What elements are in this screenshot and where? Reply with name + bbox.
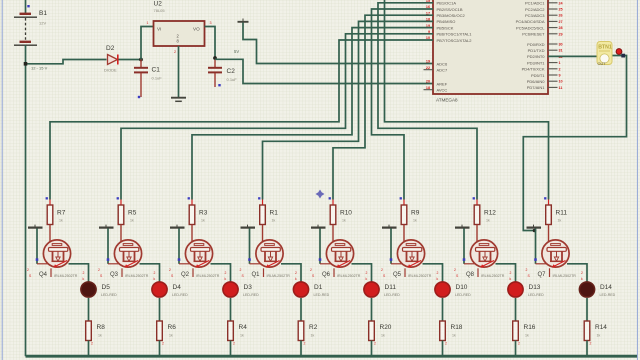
wire D3 to R4	[230, 298, 232, 321]
svg-text:PD5/T1: PD5/T1	[531, 73, 545, 78]
LED D1	[293, 282, 308, 297]
wire D10 to R18	[442, 298, 444, 321]
svg-text:PC2/ADC2: PC2/ADC2	[525, 7, 545, 12]
wire power to Q5 gate	[390, 228, 392, 263]
C2 pin end marker	[218, 84, 220, 86]
svg-text:D4: D4	[173, 284, 182, 291]
junction Q6 gate	[319, 258, 322, 261]
svg-text:IRLML2502TR: IRLML2502TR	[267, 274, 291, 278]
svg-text:PC1/ADC1: PC1/ADC1	[525, 1, 545, 6]
gate stub Q3	[108, 263, 120, 265]
junction BTN1 net at Q7 gate	[533, 229, 537, 233]
battery B1	[14, 0, 37, 45]
wire power to Q3 gate	[107, 228, 109, 263]
resistor R12	[474, 200, 480, 225]
wire PB7 to R7	[50, 40, 433, 200]
Q6 source stub	[333, 268, 335, 277]
svg-text:PD4/T0/XCK: PD4/T0/XCK	[522, 67, 545, 72]
svg-text:0.1uF: 0.1uF	[152, 76, 163, 81]
Q5 source stub	[404, 268, 406, 277]
wire PB2 to R9	[372, 9, 434, 200]
wire power to Q4 gate	[36, 228, 38, 263]
svg-text:2: 2	[510, 271, 512, 275]
transistor Q1 IRLML2502	[256, 240, 283, 268]
svg-text:1k: 1k	[201, 219, 205, 223]
wire R16 to ground bus	[515, 341, 517, 357]
svg-text:PB3/MOSI/OC2: PB3/MOSI/OC2	[437, 13, 466, 18]
wire PB5 to R3	[192, 28, 433, 200]
wire R4 to ground bus	[230, 341, 232, 357]
power symbol at Q8 gate	[455, 225, 470, 228]
capacitor C2	[208, 60, 222, 88]
svg-text:78L05: 78L05	[154, 8, 166, 13]
svg-text:OUT: OUT	[598, 62, 607, 66]
resistor R9	[401, 200, 407, 225]
svg-text:2: 2	[381, 268, 383, 272]
pin stub PD5/T1	[548, 74, 558, 76]
svg-text:PD6/AIN0: PD6/AIN0	[527, 79, 546, 84]
svg-text:2: 2	[310, 268, 312, 272]
R7 origin marker	[46, 197, 48, 199]
resistor R18	[440, 321, 446, 341]
wire power to Q6 gate	[319, 228, 321, 263]
svg-text:1k: 1k	[597, 334, 601, 338]
resistor R2	[298, 321, 304, 341]
svg-text:Q7: Q7	[538, 272, 547, 278]
Q8 source stub	[477, 268, 479, 277]
gate stub Q8	[464, 263, 476, 265]
R12 origin marker	[473, 197, 475, 199]
resistor R6	[157, 321, 163, 341]
wire D11 to R20	[371, 298, 373, 321]
wire R3 to Q2 drain	[191, 225, 193, 245]
svg-text:Q8: Q8	[466, 272, 475, 278]
svg-text:27: 27	[559, 20, 563, 24]
gate stub Q2	[179, 263, 191, 265]
svg-text:2: 2	[27, 268, 29, 272]
svg-text:D10: D10	[456, 284, 468, 291]
svg-text:k: k	[154, 277, 156, 281]
svg-text:R8: R8	[97, 324, 106, 331]
wire Q2 source to D3	[211, 264, 231, 283]
svg-text:2: 2	[162, 342, 164, 346]
LED D14	[579, 282, 594, 297]
transistor Q4 IRLML2502	[43, 240, 70, 268]
R9 origin marker	[400, 197, 402, 199]
svg-text:1k: 1k	[381, 334, 385, 338]
svg-text:Q5: Q5	[393, 272, 402, 278]
junction Q4 gate	[36, 258, 39, 261]
power symbol at Q6 gate	[311, 225, 326, 228]
wire D4 to R6	[159, 298, 161, 321]
wire diode to node C1	[119, 59, 142, 61]
wire R6 to ground bus	[159, 341, 161, 357]
svg-text:2: 2	[304, 342, 306, 346]
wire R10 to Q6 drain	[332, 225, 334, 245]
svg-text:PC6/RESET: PC6/RESET	[522, 32, 545, 37]
svg-text:AVCC: AVCC	[437, 88, 448, 93]
svg-text:2: 2	[526, 268, 528, 272]
svg-text:U2: U2	[154, 1, 163, 8]
svg-text:30: 30	[559, 43, 563, 47]
BTN1 red indicator	[616, 49, 622, 55]
wire power to Q7 gate	[535, 228, 537, 263]
svg-text:2: 2	[590, 342, 592, 346]
svg-text:11: 11	[559, 86, 563, 90]
pin stub PD6/AIN0	[548, 80, 558, 82]
svg-text:PC4/ADC4/SDA: PC4/ADC4/SDA	[516, 19, 545, 24]
svg-text:1k: 1k	[98, 334, 102, 338]
svg-text:31: 31	[559, 49, 563, 53]
svg-text:k: k	[437, 277, 439, 281]
wire Q1 source to D1	[281, 264, 301, 283]
svg-text:R1: R1	[270, 210, 279, 217]
svg-text:IRLML2502TR: IRLML2502TR	[481, 274, 505, 278]
svg-text:PB7/TOSC2/XTAL2: PB7/TOSC2/XTAL2	[437, 38, 473, 43]
Q4 source stub	[50, 268, 52, 277]
svg-text:2: 2	[559, 67, 561, 71]
pin stub PD7/AIN1	[548, 86, 558, 88]
svg-text:D14: D14	[600, 284, 612, 291]
pin stub PC1/ADC1	[548, 2, 558, 4]
svg-text:LED-RED: LED-RED	[101, 293, 117, 297]
Q1 source stub	[263, 268, 265, 277]
transistor Q3 IRLML2502	[114, 240, 141, 268]
C1 pin end marker	[138, 96, 140, 98]
junction node 5V	[213, 56, 217, 60]
resistor R8	[86, 321, 92, 341]
svg-text:10: 10	[559, 80, 563, 84]
pin stub PD2/INT0	[548, 55, 558, 57]
svg-text:BTN1: BTN1	[598, 45, 612, 51]
svg-text:IRLML2502TR: IRLML2502TR	[408, 274, 432, 278]
resistor R16	[513, 321, 519, 341]
svg-text:LED-RED: LED-RED	[528, 293, 544, 297]
wire R8 to ground bus	[88, 341, 90, 357]
svg-text:k: k	[366, 277, 368, 281]
LED D3	[223, 282, 238, 297]
wire Q6 source to D11	[352, 264, 372, 283]
svg-text:R11: R11	[556, 210, 568, 217]
svg-text:IRLML2502TR: IRLML2502TR	[196, 274, 220, 278]
svg-text:VO: VO	[193, 27, 200, 32]
wire R14 to ground bus	[586, 341, 588, 357]
wire PB1 to R12	[378, 3, 477, 200]
svg-text:R2: R2	[309, 324, 318, 331]
svg-text:PC5/ADC5/SCL: PC5/ADC5/SCL	[516, 25, 545, 30]
power symbol at Q5 gate	[382, 225, 397, 228]
sheet border right	[636, 0, 638, 360]
svg-text:D1: D1	[314, 284, 323, 291]
svg-text:20: 20	[426, 80, 430, 84]
svg-text:PB6/TOSC1/XTAL1: PB6/TOSC1/XTAL1	[437, 32, 473, 37]
pin stub PC3/ADC3	[548, 14, 558, 16]
svg-text:R5: R5	[128, 210, 137, 217]
svg-text:PB4/MISO: PB4/MISO	[437, 19, 456, 24]
svg-text:R7: R7	[57, 210, 66, 217]
R3 origin marker	[188, 197, 190, 199]
wire R20 to ground bus	[371, 341, 373, 357]
wire D13 to R16	[515, 298, 517, 321]
svg-text:Q3: Q3	[110, 272, 119, 278]
resistor R14	[584, 321, 590, 341]
svg-text:R18: R18	[451, 324, 463, 331]
svg-text:2: 2	[295, 271, 297, 275]
R5 origin marker	[117, 197, 119, 199]
svg-text:IRLML2502TR: IRLML2502TR	[553, 274, 577, 278]
svg-text:LED-RED: LED-RED	[172, 293, 188, 297]
svg-text:2: 2	[91, 342, 93, 346]
power symbol at Q3 gate	[99, 225, 114, 228]
power symbol at Q1 gate	[241, 225, 256, 228]
svg-text:2: 2	[169, 268, 171, 272]
LED D4	[152, 282, 167, 297]
svg-text:2: 2	[454, 268, 456, 272]
wire 5V node to AREF pin	[215, 59, 433, 83]
transistor Q7 IRLML2502	[542, 240, 569, 268]
wire regulator gnd	[178, 46, 180, 97]
resistor R20	[369, 321, 375, 341]
MCU U1 ATMEGA8 body	[433, 0, 548, 94]
svg-text:1k: 1k	[59, 219, 63, 223]
resistor R1	[260, 200, 266, 225]
Q2 source stub	[192, 268, 194, 277]
svg-text:1k: 1k	[413, 219, 417, 223]
svg-text:5V: 5V	[234, 49, 239, 54]
gate stub Q6	[320, 263, 332, 265]
button BTN1 body	[597, 42, 612, 65]
svg-text:9: 9	[559, 74, 561, 78]
svg-text:k: k	[83, 277, 85, 281]
svg-text:PB1/OC1A: PB1/OC1A	[437, 1, 457, 6]
capacitor C1	[134, 60, 148, 98]
wire R1 to Q1 drain	[262, 225, 264, 245]
wire PB0 to R11	[385, 0, 549, 200]
gate stub Q4	[37, 263, 49, 265]
junction node VIN	[139, 58, 143, 62]
svg-text:R9: R9	[411, 210, 420, 217]
svg-text:LED-RED: LED-RED	[243, 293, 259, 297]
Q7 source stub	[549, 268, 551, 277]
wire R2 to ground bus	[300, 341, 302, 357]
Q3 source stub	[121, 268, 123, 277]
wire R12 to Q8 drain	[476, 225, 478, 245]
LED D13	[508, 282, 523, 297]
svg-text:IRLML2502TR: IRLML2502TR	[337, 274, 361, 278]
svg-text:2: 2	[518, 342, 520, 346]
svg-text:1k: 1k	[311, 334, 315, 338]
svg-text:R3: R3	[199, 210, 208, 217]
wire D1 to R2	[300, 298, 302, 321]
junction battery node	[24, 62, 28, 66]
svg-text:2: 2	[98, 268, 100, 272]
svg-text:29: 29	[559, 32, 563, 36]
sheet border left	[1, 0, 3, 360]
svg-text:LED-RED: LED-RED	[384, 293, 400, 297]
svg-text:25: 25	[559, 8, 563, 12]
svg-text:LED-RED: LED-RED	[600, 293, 616, 297]
svg-text:R16: R16	[524, 324, 536, 331]
svg-text:1k: 1k	[272, 219, 276, 223]
svg-text:IRLML2502TR: IRLML2502TR	[54, 274, 78, 278]
wire PB6 to R5	[121, 34, 433, 200]
svg-text:R6: R6	[168, 324, 177, 331]
svg-text:2: 2	[154, 271, 156, 275]
svg-text:12 - 15 V: 12 - 15 V	[31, 66, 48, 71]
resistor R7	[47, 200, 53, 225]
R1 origin marker	[258, 197, 260, 199]
wire Q5 source to D10	[423, 264, 443, 283]
svg-text:Q6: Q6	[322, 272, 331, 278]
origin marker near R10	[316, 190, 325, 199]
svg-text:2: 2	[233, 342, 235, 346]
regulator U2 body	[154, 21, 205, 46]
svg-text:R20: R20	[380, 324, 392, 331]
ground bus	[26, 355, 638, 358]
power symbol at Q7 gate	[527, 225, 542, 228]
svg-text:2: 2	[174, 50, 176, 54]
pin stub AVCC	[424, 89, 434, 91]
wire PB4 to R1	[263, 21, 434, 199]
svg-text:26: 26	[559, 14, 563, 18]
svg-text:VI: VI	[157, 27, 161, 32]
pin stub PD3/INT1	[548, 62, 558, 64]
ground symbol	[171, 98, 186, 102]
svg-text:2: 2	[374, 342, 376, 346]
R10 origin marker	[329, 197, 331, 199]
svg-text:1k: 1k	[240, 334, 244, 338]
wire R18 to ground bus	[442, 341, 444, 357]
wire Q3 source to D4	[140, 264, 160, 283]
gate stub Q1	[250, 263, 262, 265]
junction Q5 gate	[390, 258, 393, 261]
junction Q7 gate	[534, 258, 537, 261]
svg-text:1k: 1k	[169, 334, 173, 338]
wire Q7 source to D14	[567, 264, 587, 283]
svg-text:3: 3	[210, 21, 212, 25]
resistor R4	[228, 321, 234, 341]
svg-text:R12: R12	[484, 210, 496, 217]
battery origin marker	[27, 5, 29, 7]
wire battery to diode	[26, 60, 107, 64]
svg-text:IRLML2502TR: IRLML2502TR	[125, 274, 149, 278]
wire R9 to Q5 drain	[403, 225, 405, 245]
wire R11 to Q7 drain	[548, 225, 550, 245]
diode D2	[108, 55, 118, 65]
power symbol at Q2 gate	[170, 225, 185, 228]
svg-text:Q1: Q1	[252, 272, 261, 278]
svg-text:2: 2	[83, 271, 85, 275]
svg-text:D5: D5	[102, 284, 111, 291]
svg-text:2: 2	[445, 342, 447, 346]
wire Q8 source to D13	[496, 264, 516, 283]
power symbol 5V rail	[238, 19, 249, 22]
transistor Q8 IRLML2502	[470, 240, 497, 268]
svg-text:DIODE: DIODE	[104, 68, 117, 73]
wire power to Q8 gate	[463, 228, 465, 263]
wire BTN1 out to Q7 gate	[523, 56, 626, 231]
svg-text:1k: 1k	[342, 219, 346, 223]
svg-text:R4: R4	[239, 324, 248, 331]
junction Q2 gate	[178, 258, 181, 261]
svg-text:PB2/SS/OC1B: PB2/SS/OC1B	[437, 7, 463, 12]
resistor R11	[546, 200, 552, 225]
wire power to Q1 gate	[249, 228, 251, 263]
svg-text:PC3/ADC3: PC3/ADC3	[525, 13, 545, 18]
svg-text:2: 2	[225, 271, 227, 275]
svg-text:B1: B1	[39, 10, 47, 17]
svg-text:28: 28	[559, 26, 563, 30]
wire 5V power to ADC7 pin	[243, 23, 433, 64]
wire PB3 to R10	[333, 15, 433, 199]
svg-text:LED-RED: LED-RED	[314, 293, 330, 297]
wire Q4 source to D5	[69, 264, 89, 283]
svg-text:Q2: Q2	[181, 272, 190, 278]
wire R7 to Q4 drain	[49, 225, 51, 245]
svg-text:k: k	[295, 277, 297, 281]
svg-text:C1: C1	[152, 67, 161, 74]
transistor Q6 IRLML2502	[326, 240, 353, 268]
svg-text:0.1uF: 0.1uF	[227, 77, 238, 82]
svg-text:12V: 12V	[39, 21, 46, 26]
pin stub PC2/ADC2	[548, 8, 558, 10]
pin stub PC6/RESET	[548, 33, 558, 35]
svg-text:D3: D3	[244, 284, 253, 291]
svg-text:AREF: AREF	[437, 81, 448, 86]
pin stub PC4/ADC4/SDA	[548, 20, 558, 22]
LED D10	[435, 282, 450, 297]
wire power to Q2 gate	[178, 228, 180, 263]
pin stub PD4/T0/XCK	[548, 68, 558, 70]
svg-text:Q4: Q4	[39, 272, 48, 278]
pin stub PD0/RXD	[548, 43, 558, 45]
svg-text:ATMEGA8: ATMEGA8	[436, 98, 458, 103]
svg-text:PD1/TXD: PD1/TXD	[528, 48, 545, 53]
svg-text:PB5/SCK: PB5/SCK	[437, 25, 454, 30]
svg-text:k: k	[581, 277, 583, 281]
svg-text:1: 1	[559, 61, 561, 65]
gate stub Q5	[391, 263, 403, 265]
svg-text:R14: R14	[595, 324, 607, 331]
svg-text:2: 2	[240, 268, 242, 272]
svg-text:1k: 1k	[525, 334, 529, 338]
svg-text:k: k	[510, 277, 512, 281]
svg-text:PD3/INT1: PD3/INT1	[527, 60, 545, 65]
svg-text:D13: D13	[529, 284, 541, 291]
resistor R3	[189, 200, 195, 225]
pin stub PD1/TXD	[548, 49, 558, 51]
pin stub ADC7	[424, 69, 434, 71]
LED D11	[364, 282, 379, 297]
svg-text:1k: 1k	[452, 334, 456, 338]
pin stub PC5/ADC5/SCL	[548, 27, 558, 29]
wire regulator output	[205, 27, 216, 60]
svg-text:PD0/RXD: PD0/RXD	[527, 42, 544, 47]
wire battery negative down to ground bus	[25, 45, 27, 356]
transistor Q2 IRLML2502	[185, 240, 212, 268]
svg-text:2: 2	[437, 271, 439, 275]
svg-text:LED-RED: LED-RED	[455, 293, 471, 297]
BTN1 dark marker	[621, 54, 625, 58]
svg-text:2: 2	[366, 271, 368, 275]
wire PD1 to BTN1	[548, 55, 598, 57]
wire D5 to R8	[88, 298, 90, 321]
svg-text:D11: D11	[385, 284, 397, 291]
junction Q1 gate	[248, 258, 251, 261]
svg-text:ADC7: ADC7	[437, 68, 448, 73]
svg-text:ADC6: ADC6	[437, 61, 448, 66]
svg-text:k: k	[225, 277, 227, 281]
